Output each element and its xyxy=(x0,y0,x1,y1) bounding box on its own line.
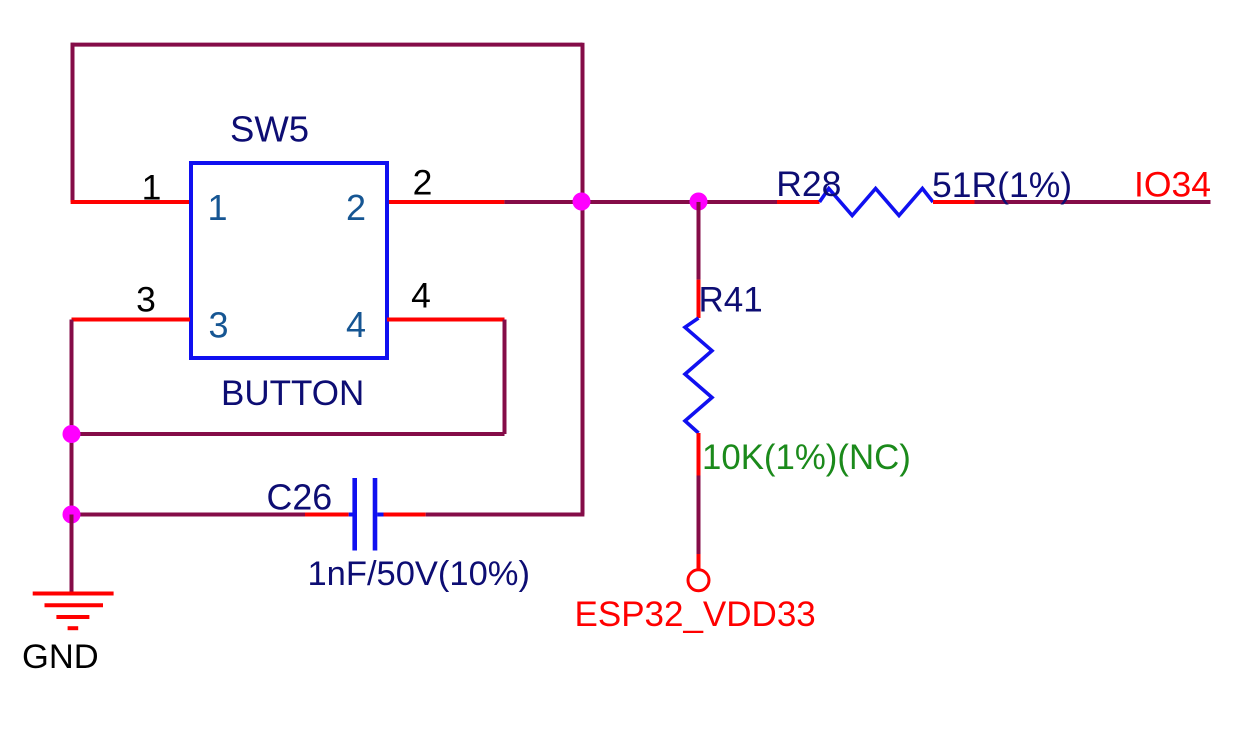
junction node pin2/vertical xyxy=(573,193,591,211)
wire pin1 red stub xyxy=(71,200,190,204)
svg-text:ESP32_VDD33: ESP32_VDD33 xyxy=(575,595,816,634)
svg-text:IO34: IO34 xyxy=(1134,165,1211,205)
ground bar 1 xyxy=(33,592,114,596)
wire R28 left red lead xyxy=(777,200,820,204)
svg-text:R41: R41 xyxy=(699,281,763,320)
capacitor C26 left plate xyxy=(352,478,357,551)
svg-text:1: 1 xyxy=(207,187,227,228)
wire VDD pin red stub xyxy=(697,554,701,569)
wire R41 bottom red lead xyxy=(697,433,701,476)
svg-text:4: 4 xyxy=(346,304,366,345)
svg-text:4: 4 xyxy=(411,276,431,316)
wire top horizontal xyxy=(71,43,583,47)
wire R28 right red lead xyxy=(933,200,975,204)
resistor R41 zigzag xyxy=(685,318,712,433)
wire C26 right red lead xyxy=(384,513,426,517)
junction node R41 branch xyxy=(690,193,708,211)
wire pin4 horizontal to left rail xyxy=(72,432,505,436)
svg-text:3: 3 xyxy=(208,305,228,346)
svg-text:BUTTON: BUTTON xyxy=(221,374,364,413)
svg-text:GND: GND xyxy=(22,638,99,676)
wire pin4 red stub xyxy=(387,318,505,322)
wire C26 right maroon xyxy=(426,513,585,517)
wire C26 left red lead xyxy=(305,513,349,517)
port circle ESP32_VDD33 xyxy=(688,570,709,591)
svg-text:R28: R28 xyxy=(776,164,841,204)
svg-text:SW5: SW5 xyxy=(230,108,309,149)
ground bar 4 xyxy=(68,626,79,630)
svg-text:3: 3 xyxy=(136,280,156,320)
wire R41 top maroon xyxy=(697,202,701,280)
svg-text:10K(1%)(NC): 10K(1%)(NC) xyxy=(702,438,911,477)
wire pin3 red stub xyxy=(72,318,191,322)
switch SW5 box xyxy=(191,163,387,358)
svg-text:2: 2 xyxy=(413,163,433,203)
wire pin2 red stub xyxy=(387,200,504,204)
wire pin4 vertical down xyxy=(503,320,507,435)
capacitor C26 left blue lead xyxy=(349,513,353,517)
wire left rail upper vertical xyxy=(71,43,75,202)
wire right vertical from top to C26 net xyxy=(581,43,585,515)
wire to IO34 xyxy=(975,200,1211,204)
capacitor C26 right plate xyxy=(373,478,378,551)
wire left rail lower vertical to GND xyxy=(70,320,74,595)
junction node C26/left rail xyxy=(63,506,81,524)
wire pin2 maroon to R28 xyxy=(504,200,777,204)
ground bar 2 xyxy=(45,603,104,607)
svg-text:51R(1%): 51R(1%) xyxy=(932,165,1072,205)
svg-text:2: 2 xyxy=(346,187,366,228)
wire R41 top red lead xyxy=(697,280,701,318)
wire R41 bottom maroon xyxy=(697,476,701,555)
svg-text:C26: C26 xyxy=(267,478,333,518)
ground stem xyxy=(70,515,74,595)
ground bar 3 xyxy=(56,615,89,619)
wire C26 left maroon xyxy=(72,513,306,517)
resistor R28 zigzag xyxy=(820,189,934,216)
junction node pin4/left rail xyxy=(63,425,81,443)
svg-text:1nF/50V(10%): 1nF/50V(10%) xyxy=(308,555,530,593)
svg-text:1: 1 xyxy=(142,168,162,208)
capacitor C26 right blue lead xyxy=(377,513,383,517)
